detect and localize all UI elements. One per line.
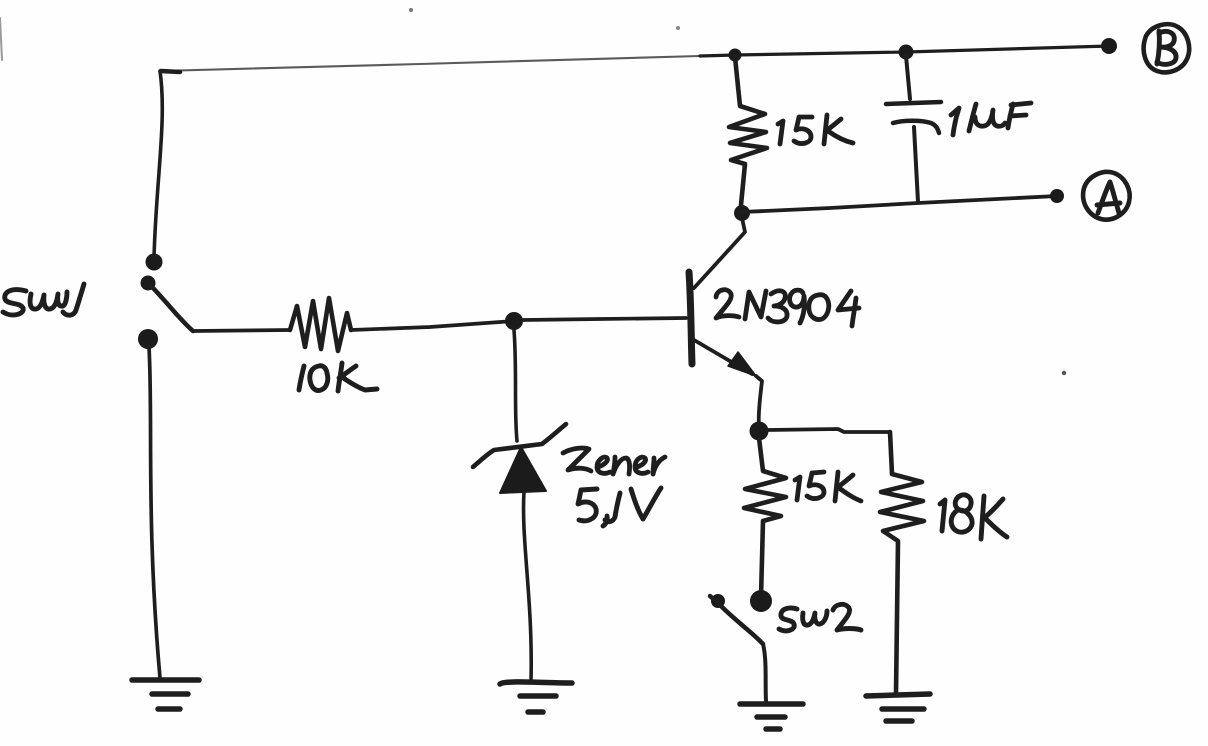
label SW1	[3, 284, 84, 315]
node SW2 pole	[711, 594, 725, 608]
label SW2	[779, 604, 861, 630]
label 18K	[940, 495, 1007, 539]
ground 18K	[866, 694, 930, 721]
node A circle	[1083, 172, 1130, 220]
capacitor C1 top plate	[886, 102, 941, 104]
wire top rail B right segment	[700, 46, 1109, 56]
ground zener	[500, 682, 572, 712]
wire A rail	[742, 196, 1057, 212]
label 10K	[299, 363, 377, 391]
wire top-left corner tick	[161, 71, 180, 72]
node cap top junction	[899, 45, 914, 60]
switch SW1 arm	[152, 287, 193, 331]
node SW2 top contact	[750, 590, 772, 612]
diode zener D1	[473, 424, 566, 493]
label 15K lower	[795, 472, 861, 501]
node base junction	[505, 312, 523, 330]
label 5,1V	[578, 488, 661, 526]
capacitor C1 bottom lead	[914, 127, 918, 202]
switch SW2 arm	[710, 596, 763, 644]
wire SW1 arm to resistor	[193, 330, 290, 331]
label A	[1097, 182, 1120, 213]
label 15K top	[778, 115, 853, 144]
node top rail junction R2	[729, 49, 742, 62]
node collector junction	[734, 205, 750, 221]
transistor collector	[694, 218, 745, 288]
speck top	[409, 8, 413, 12]
speck mid2	[676, 26, 680, 30]
resistor R2 15K	[729, 57, 767, 205]
label 2N3904	[716, 290, 859, 326]
wire left vertical from rail to SW1	[154, 71, 162, 258]
resistor R4 18K	[880, 432, 924, 693]
wire top rail B left segment	[160, 56, 700, 71]
wire SW1 to ground	[149, 347, 160, 678]
resistor R 10K	[290, 298, 351, 351]
node emitter junction	[750, 422, 769, 441]
label B	[1157, 31, 1176, 64]
wire zener anode from junction	[514, 330, 517, 441]
transistor emitter arrowhead	[728, 352, 756, 376]
node A terminal	[1050, 189, 1064, 203]
transistor Q1 2N3904 bar	[689, 272, 692, 364]
ground SW1	[132, 680, 199, 709]
transistor emitter	[694, 340, 752, 374]
wire resistor to node	[351, 321, 514, 330]
capacitor C1 bottom plate	[893, 121, 939, 133]
node SW1 top contact	[146, 254, 163, 271]
wire emitter to junction	[756, 376, 762, 427]
speck mid	[1062, 371, 1066, 375]
wire SW2 to ground	[763, 644, 766, 701]
node B circle	[1144, 24, 1190, 72]
node SW1 bottom contact	[138, 329, 158, 349]
wire zener to ground	[524, 492, 532, 681]
node SW1 pole	[141, 276, 156, 291]
label 1uF	[951, 103, 1031, 135]
speck left-edge	[0, 18, 2, 60]
capacitor C1 1uF top lead	[906, 56, 910, 99]
ground SW2	[740, 704, 803, 729]
wire base junction to transistor	[523, 318, 686, 320]
node B terminal	[1101, 38, 1117, 54]
label Zener	[563, 448, 665, 474]
resistor R3 15K lower	[744, 438, 786, 597]
wire junction to 18K branch	[768, 429, 890, 432]
